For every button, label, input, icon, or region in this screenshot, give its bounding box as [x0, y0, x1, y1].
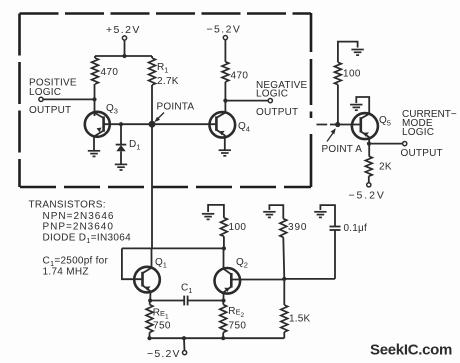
svg-text:TRANSISTORS:: TRANSISTORS: [29, 200, 106, 211]
svg-text:1.74 MHZ: 1.74 MHZ [43, 267, 89, 278]
svg-text:LOGIC: LOGIC [29, 87, 61, 98]
svg-text:POINT A: POINT A [322, 144, 363, 155]
svg-text:LOGIC: LOGIC [402, 127, 434, 138]
svg-text:C1: C1 [181, 283, 192, 296]
svg-text:−5.2V: −5.2V [207, 24, 242, 36]
svg-text:PNP=2N3640: PNP=2N3640 [43, 222, 114, 233]
svg-text:Q5: Q5 [379, 115, 391, 128]
svg-text:750: 750 [229, 321, 247, 332]
svg-text:−5.2V: −5.2V [147, 348, 181, 360]
svg-text:750: 750 [153, 321, 171, 332]
svg-text:RE2: RE2 [228, 306, 244, 319]
svg-text:Q1: Q1 [155, 257, 167, 270]
svg-text:OUTPUT: OUTPUT [29, 105, 71, 116]
svg-text:100: 100 [229, 222, 247, 233]
svg-text:2K: 2K [379, 162, 392, 173]
svg-text:OUTPUT: OUTPUT [401, 148, 443, 159]
svg-text:SeekIC.com: SeekIC.com [370, 342, 452, 359]
svg-text:390: 390 [288, 222, 307, 233]
svg-text:Q3: Q3 [106, 103, 118, 116]
svg-text:+5.2V: +5.2V [106, 24, 141, 36]
svg-text:OUTPUT: OUTPUT [256, 107, 298, 118]
svg-text:470: 470 [101, 67, 119, 78]
svg-text:DIODE D1=IN3064: DIODE D1=IN3064 [43, 232, 132, 245]
svg-text:470: 470 [231, 71, 249, 82]
svg-text:100: 100 [343, 69, 361, 80]
svg-text:Q2: Q2 [236, 257, 248, 270]
svg-text:LOGIC: LOGIC [256, 89, 288, 100]
svg-text:RE1: RE1 [153, 308, 169, 321]
svg-text:D1: D1 [129, 139, 140, 152]
svg-text:POINTA: POINTA [157, 102, 195, 113]
svg-text:Q4: Q4 [238, 121, 250, 134]
svg-text:R1: R1 [157, 62, 168, 75]
svg-text:2.7K: 2.7K [157, 76, 179, 87]
svg-text:1.5K: 1.5K [289, 314, 311, 325]
svg-text:0.1μf: 0.1μf [344, 223, 367, 234]
svg-text:NPN=2N3646: NPN=2N3646 [43, 211, 115, 222]
svg-text:−5.2V: −5.2V [349, 190, 386, 202]
